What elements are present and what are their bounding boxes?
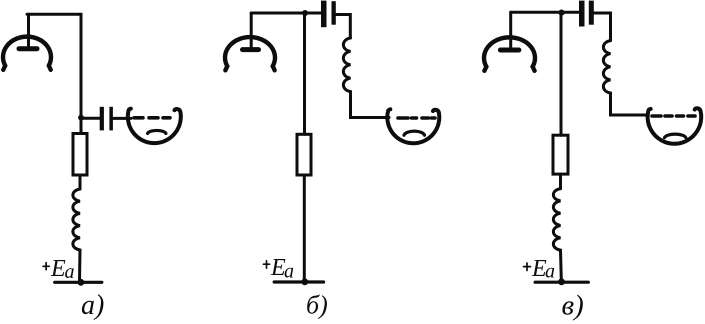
svg-text:в): в): [562, 290, 584, 322]
svg-text:a: a: [545, 260, 555, 282]
svg-text:a: a: [65, 261, 75, 283]
svg-text:б): б): [306, 291, 328, 320]
svg-text:a: a: [284, 260, 294, 282]
svg-text:а): а): [81, 290, 104, 321]
